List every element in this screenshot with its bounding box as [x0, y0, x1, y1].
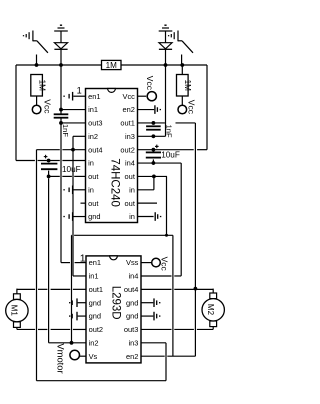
svg-text:1nF: 1nF	[61, 124, 70, 137]
svg-text:Vcc: Vcc	[42, 99, 52, 114]
svg-text:en2: en2	[122, 105, 134, 114]
svg-text:Vs: Vs	[89, 352, 98, 361]
svg-text:out: out	[125, 199, 136, 208]
svg-text:M1: M1	[10, 305, 19, 317]
svg-text:Vcc: Vcc	[159, 257, 169, 272]
svg-text:out: out	[125, 172, 136, 181]
svg-text:Vmotor: Vmotor	[56, 343, 67, 373]
svg-text:in4: in4	[125, 159, 135, 168]
svg-text:out1: out1	[89, 285, 103, 294]
svg-text:1M: 1M	[106, 61, 118, 70]
svg-text:gnd: gnd	[89, 298, 101, 307]
svg-text:in2: in2	[88, 132, 98, 141]
svg-text:1: 1	[80, 252, 86, 264]
svg-text:out: out	[88, 172, 99, 181]
svg-text:in2: in2	[89, 338, 99, 347]
svg-text:in3: in3	[125, 132, 135, 141]
svg-text:Vcc: Vcc	[145, 76, 155, 91]
svg-text:in1: in1	[88, 105, 98, 114]
svg-text:in4: in4	[128, 272, 138, 281]
svg-text:in: in	[129, 185, 135, 194]
svg-text:gnd: gnd	[89, 312, 101, 321]
svg-text:in: in	[129, 212, 135, 221]
svg-text:out3: out3	[124, 325, 138, 334]
svg-text:in3: in3	[128, 338, 138, 347]
svg-text:in1: in1	[89, 272, 99, 281]
svg-text:out4: out4	[124, 285, 138, 294]
svg-text:Vcc: Vcc	[186, 100, 196, 115]
svg-text:10uF: 10uF	[62, 165, 81, 174]
svg-text:1M: 1M	[38, 80, 47, 92]
svg-text:10uF: 10uF	[161, 151, 180, 160]
svg-text:M2: M2	[206, 304, 215, 316]
svg-text:74HC240: 74HC240	[109, 158, 121, 207]
svg-text:gnd: gnd	[126, 298, 138, 307]
svg-text:1: 1	[77, 86, 82, 96]
svg-text:out: out	[88, 199, 99, 208]
svg-text:out2: out2	[120, 145, 134, 154]
svg-text:gnd: gnd	[88, 212, 100, 221]
svg-text:en2: en2	[126, 352, 138, 361]
svg-text:Vcc: Vcc	[122, 92, 135, 101]
svg-text:Vss: Vss	[126, 258, 139, 267]
svg-text:in: in	[88, 159, 94, 168]
svg-text:1nF: 1nF	[164, 125, 173, 138]
svg-text:out3: out3	[88, 119, 102, 128]
svg-text:L293D: L293D	[110, 286, 122, 320]
svg-text:1M: 1M	[183, 80, 192, 92]
svg-text:out4: out4	[88, 145, 102, 154]
svg-text:out2: out2	[89, 325, 103, 334]
svg-text:en1: en1	[89, 258, 101, 267]
svg-text:in: in	[88, 185, 94, 194]
svg-text:out1: out1	[120, 119, 134, 128]
svg-text:gnd: gnd	[126, 312, 138, 321]
svg-text:en1: en1	[88, 92, 100, 101]
